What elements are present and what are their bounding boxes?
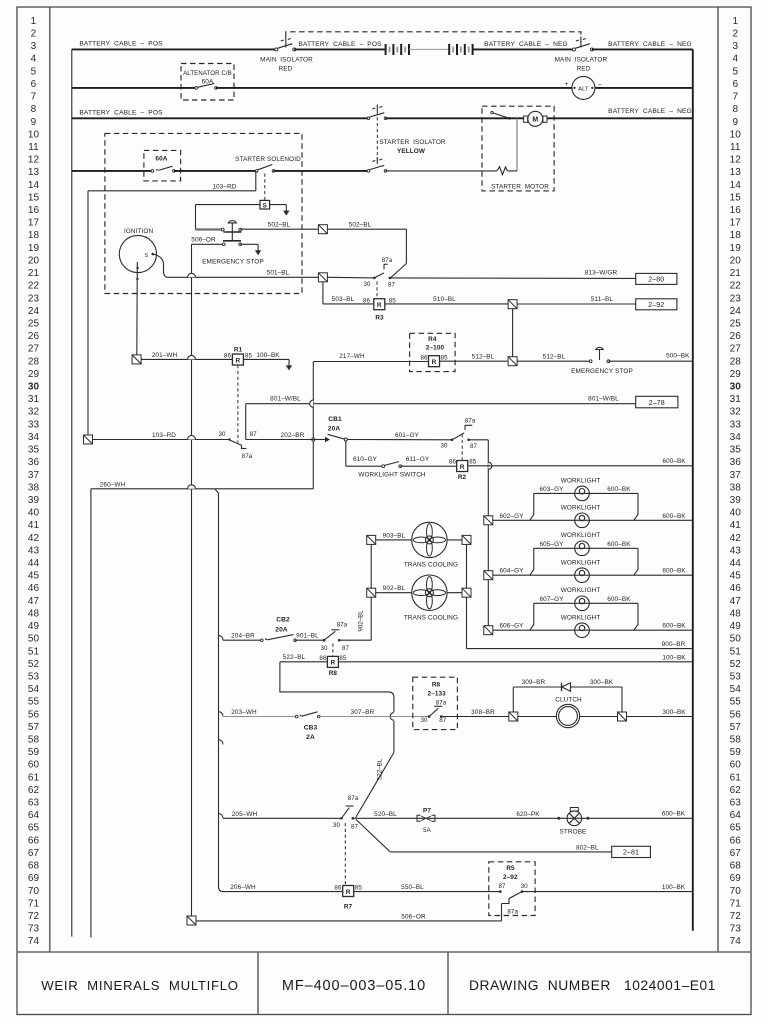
svg-text:205–WH: 205–WH xyxy=(232,811,258,818)
svg-text:901–BL: 901–BL xyxy=(296,633,319,640)
svg-text:217–WH: 217–WH xyxy=(339,353,365,360)
svg-text:204–BR: 204–BR xyxy=(231,633,255,640)
svg-text:606–GY: 606–GY xyxy=(499,623,524,630)
svg-text:87a: 87a xyxy=(507,908,518,915)
svg-text:62: 62 xyxy=(730,785,742,796)
svg-text:68: 68 xyxy=(28,861,40,872)
svg-text:103–RD: 103–RD xyxy=(152,432,176,439)
svg-text:2–78: 2–78 xyxy=(649,400,665,407)
svg-text:73: 73 xyxy=(28,924,40,935)
svg-text:R: R xyxy=(236,357,241,364)
svg-text:WEIR MINERALS MULTIFLO: WEIR MINERALS MULTIFLO xyxy=(41,978,239,993)
svg-text:300–BK: 300–BK xyxy=(662,709,686,716)
svg-text:600–BK: 600–BK xyxy=(662,458,686,465)
svg-text:30: 30 xyxy=(440,443,448,450)
svg-text:65: 65 xyxy=(730,823,742,834)
svg-text:87a: 87a xyxy=(348,795,359,802)
svg-text:43: 43 xyxy=(730,545,742,556)
svg-text:600–BK: 600–BK xyxy=(662,568,686,575)
svg-text:5A: 5A xyxy=(423,827,432,834)
svg-text:33: 33 xyxy=(730,419,742,430)
svg-text:27: 27 xyxy=(28,344,40,355)
svg-text:87: 87 xyxy=(498,883,506,890)
svg-text:32: 32 xyxy=(730,407,742,418)
svg-text:47: 47 xyxy=(730,596,742,607)
svg-text:600–BK: 600–BK xyxy=(607,541,631,548)
svg-text:30: 30 xyxy=(218,431,226,438)
svg-text:74: 74 xyxy=(730,936,742,947)
svg-text:31: 31 xyxy=(28,394,40,405)
svg-text:87a: 87a xyxy=(465,418,476,425)
svg-text:4: 4 xyxy=(732,54,738,65)
svg-text:1: 1 xyxy=(31,16,37,27)
svg-text:7: 7 xyxy=(732,92,738,103)
svg-text:31: 31 xyxy=(730,394,742,405)
svg-text:3: 3 xyxy=(31,41,37,52)
svg-text:206–WH: 206–WH xyxy=(230,884,256,891)
svg-text:41: 41 xyxy=(28,520,40,531)
svg-text:24: 24 xyxy=(28,306,40,317)
svg-text:ALTENATOR C/B: ALTENATOR C/B xyxy=(183,70,232,77)
svg-text:EMERGENCY STOP: EMERGENCY STOP xyxy=(202,258,264,265)
svg-text:36: 36 xyxy=(28,457,40,468)
svg-text:YELLOW: YELLOW xyxy=(397,148,426,155)
svg-text:37: 37 xyxy=(730,470,742,481)
svg-text:10: 10 xyxy=(28,129,40,140)
svg-text:13: 13 xyxy=(730,167,742,178)
svg-text:53: 53 xyxy=(28,671,40,682)
svg-text:21: 21 xyxy=(730,268,742,279)
svg-text:5: 5 xyxy=(31,66,37,77)
svg-text:49: 49 xyxy=(730,621,742,632)
svg-text:71: 71 xyxy=(730,898,742,909)
svg-text:39: 39 xyxy=(28,495,40,506)
svg-text:85: 85 xyxy=(339,655,347,662)
svg-text:9: 9 xyxy=(31,117,37,128)
svg-text:TRANS COOLING: TRANS COOLING xyxy=(404,614,458,621)
svg-text:87: 87 xyxy=(388,281,396,288)
svg-text:38: 38 xyxy=(28,482,40,493)
svg-text:22: 22 xyxy=(28,281,40,292)
svg-text:58: 58 xyxy=(28,734,40,745)
svg-text:32: 32 xyxy=(28,407,40,418)
svg-text:69: 69 xyxy=(28,873,40,884)
svg-text:12: 12 xyxy=(730,155,742,166)
svg-text:522–BL: 522–BL xyxy=(377,758,384,780)
svg-text:61: 61 xyxy=(730,772,742,783)
svg-text:63: 63 xyxy=(730,798,742,809)
svg-text:605–GY: 605–GY xyxy=(539,541,564,548)
svg-text:58: 58 xyxy=(730,734,742,745)
svg-text:813–W/GR: 813–W/GR xyxy=(585,270,618,277)
svg-text:74: 74 xyxy=(28,936,40,947)
svg-text:307–BR: 307–BR xyxy=(351,709,375,716)
svg-text:R: R xyxy=(331,660,336,667)
svg-text:511–BL: 511–BL xyxy=(591,296,614,303)
svg-text:17: 17 xyxy=(28,218,40,229)
svg-text:87a: 87a xyxy=(436,700,447,707)
svg-text:R2: R2 xyxy=(458,474,467,481)
svg-text:CB2: CB2 xyxy=(276,617,290,624)
svg-text:85: 85 xyxy=(245,352,253,359)
svg-text:14: 14 xyxy=(28,180,40,191)
svg-text:42: 42 xyxy=(28,533,40,544)
svg-text:600–BK: 600–BK xyxy=(607,596,631,603)
svg-text:CLUTCH: CLUTCH xyxy=(555,697,582,704)
svg-text:30: 30 xyxy=(333,822,341,829)
svg-text:26: 26 xyxy=(28,331,40,342)
svg-text:9: 9 xyxy=(732,117,738,128)
svg-text:R: R xyxy=(377,302,382,309)
svg-text:56: 56 xyxy=(28,709,40,720)
svg-text:54: 54 xyxy=(28,684,40,695)
svg-text:20A: 20A xyxy=(275,627,288,634)
svg-text:87a: 87a xyxy=(337,622,348,629)
svg-text:100–BK: 100–BK xyxy=(256,352,280,359)
svg-text:S: S xyxy=(144,253,148,259)
svg-text:86: 86 xyxy=(334,885,342,892)
svg-text:67: 67 xyxy=(730,848,742,859)
svg-text:503–BL: 503–BL xyxy=(332,296,355,303)
svg-text:602–GY: 602–GY xyxy=(499,513,524,520)
svg-text:2–133: 2–133 xyxy=(428,691,447,698)
svg-text:2–81: 2–81 xyxy=(623,850,639,857)
svg-text:20: 20 xyxy=(730,255,742,266)
svg-text:34: 34 xyxy=(28,432,40,443)
svg-text:WORKLIGHT: WORKLIGHT xyxy=(561,614,601,621)
svg-text:87: 87 xyxy=(351,823,359,830)
svg-text:100–BK: 100–BK xyxy=(662,884,686,891)
svg-text:72: 72 xyxy=(730,911,742,922)
svg-text:18: 18 xyxy=(730,230,742,241)
svg-text:600–BK: 600–BK xyxy=(662,513,686,520)
svg-text:8: 8 xyxy=(732,104,738,115)
svg-text:CB3: CB3 xyxy=(304,725,318,732)
svg-text:501–BL: 501–BL xyxy=(267,270,290,277)
svg-text:24: 24 xyxy=(730,306,742,317)
svg-text:61: 61 xyxy=(28,772,40,783)
svg-text:7: 7 xyxy=(31,92,37,103)
svg-text:RED: RED xyxy=(279,66,293,73)
svg-text:2–92: 2–92 xyxy=(503,874,518,881)
svg-text:S: S xyxy=(263,202,267,209)
svg-text:DRAWING NUMBER 1024001–E01: DRAWING NUMBER 1024001–E01 xyxy=(469,978,716,993)
svg-text:56: 56 xyxy=(730,709,742,720)
svg-text:59: 59 xyxy=(28,747,40,758)
svg-text:60A: 60A xyxy=(155,156,167,163)
svg-text:R4: R4 xyxy=(428,336,437,343)
svg-text:34: 34 xyxy=(730,432,742,443)
svg-text:29: 29 xyxy=(28,369,40,380)
svg-text:60: 60 xyxy=(730,760,742,771)
svg-text:85: 85 xyxy=(355,885,363,892)
svg-text:55: 55 xyxy=(28,697,40,708)
svg-text:203–WH: 203–WH xyxy=(231,709,257,716)
svg-text:607–GY: 607–GY xyxy=(539,596,564,603)
svg-text:3: 3 xyxy=(732,41,738,52)
svg-text:51: 51 xyxy=(28,646,40,657)
svg-text:600–BK: 600–BK xyxy=(662,811,686,818)
svg-text:900–BR: 900–BR xyxy=(662,641,686,648)
svg-text:902–BL: 902–BL xyxy=(358,610,365,632)
svg-text:M: M xyxy=(532,117,538,124)
svg-text:STARTER MOTOR: STARTER MOTOR xyxy=(491,184,549,191)
svg-text:64: 64 xyxy=(28,810,40,821)
svg-text:4: 4 xyxy=(31,54,37,65)
svg-text:45: 45 xyxy=(730,571,742,582)
svg-text:37: 37 xyxy=(28,470,40,481)
svg-text:RED: RED xyxy=(577,66,591,73)
svg-text:62: 62 xyxy=(28,785,40,796)
svg-text:30: 30 xyxy=(28,382,40,393)
svg-text:26: 26 xyxy=(730,331,742,342)
svg-text:STROBE: STROBE xyxy=(560,829,587,836)
svg-text:49: 49 xyxy=(28,621,40,632)
svg-text:11: 11 xyxy=(28,142,39,153)
svg-text:67: 67 xyxy=(28,848,40,859)
svg-text:2–100: 2–100 xyxy=(426,345,445,352)
svg-text:21: 21 xyxy=(28,268,40,279)
svg-text:50: 50 xyxy=(730,634,742,645)
svg-text:40: 40 xyxy=(730,508,742,519)
svg-text:28: 28 xyxy=(730,356,742,367)
svg-text:611–GY: 611–GY xyxy=(406,456,430,463)
svg-text:60: 60 xyxy=(28,760,40,771)
svg-text:53: 53 xyxy=(730,671,742,682)
svg-text:25: 25 xyxy=(28,318,40,329)
svg-text:601–GY: 601–GY xyxy=(395,432,420,439)
svg-text:WORKLIGHT: WORKLIGHT xyxy=(561,477,601,484)
svg-text:6: 6 xyxy=(31,79,37,90)
svg-text:R5: R5 xyxy=(506,865,515,872)
svg-text:52: 52 xyxy=(28,659,40,670)
svg-text:506–OR: 506–OR xyxy=(401,913,426,920)
svg-text:38: 38 xyxy=(730,482,742,493)
svg-text:65: 65 xyxy=(28,823,40,834)
svg-text:512–BL: 512–BL xyxy=(472,354,495,361)
svg-text:64: 64 xyxy=(730,810,742,821)
svg-text:IGNITION: IGNITION xyxy=(124,228,153,235)
svg-text:87: 87 xyxy=(470,443,478,450)
svg-text:502–BL: 502–BL xyxy=(349,222,372,229)
svg-text:309–BR: 309–BR xyxy=(522,679,546,686)
svg-text:STARTER ISOLATOR: STARTER ISOLATOR xyxy=(379,139,445,146)
svg-text:16: 16 xyxy=(28,205,40,216)
svg-text:P7: P7 xyxy=(423,807,431,814)
svg-text:R8: R8 xyxy=(329,670,338,677)
svg-text:29: 29 xyxy=(730,369,742,380)
svg-text:44: 44 xyxy=(730,558,742,569)
svg-text:502–BL: 502–BL xyxy=(268,222,291,229)
svg-text:68: 68 xyxy=(730,861,742,872)
svg-text:86: 86 xyxy=(363,298,371,305)
svg-text:85: 85 xyxy=(441,354,449,361)
svg-text:BATTERY CABLE – POS: BATTERY CABLE – POS xyxy=(298,41,382,48)
svg-text:87a: 87a xyxy=(382,257,393,264)
svg-text:620–PK: 620–PK xyxy=(516,811,540,818)
svg-text:35: 35 xyxy=(730,445,742,456)
svg-text:23: 23 xyxy=(28,293,40,304)
svg-text:1: 1 xyxy=(732,16,738,27)
svg-text:30: 30 xyxy=(730,382,742,393)
svg-text:WORKLIGHT: WORKLIGHT xyxy=(561,505,601,512)
svg-text:11: 11 xyxy=(730,142,741,153)
svg-text:25: 25 xyxy=(730,318,742,329)
svg-text:46: 46 xyxy=(28,583,40,594)
svg-text:2–92: 2–92 xyxy=(648,302,664,309)
svg-text:19: 19 xyxy=(730,243,742,254)
svg-text:35: 35 xyxy=(28,445,40,456)
svg-text:87: 87 xyxy=(439,717,447,724)
svg-text:16: 16 xyxy=(730,205,742,216)
svg-text:10: 10 xyxy=(730,129,742,140)
svg-text:802–BL: 802–BL xyxy=(576,844,599,851)
svg-text:2: 2 xyxy=(732,29,738,40)
svg-text:28: 28 xyxy=(28,356,40,367)
svg-text:15: 15 xyxy=(28,192,40,203)
svg-text:550–BL: 550–BL xyxy=(401,884,424,891)
svg-text:WORKLIGHT: WORKLIGHT xyxy=(561,559,601,566)
svg-text:87: 87 xyxy=(250,431,258,438)
svg-text:30: 30 xyxy=(320,645,328,652)
svg-text:5: 5 xyxy=(732,66,738,77)
svg-text:506–OR: 506–OR xyxy=(191,237,216,244)
svg-text:71: 71 xyxy=(28,898,40,909)
svg-text:22: 22 xyxy=(730,281,742,292)
svg-text:WORKLIGHT: WORKLIGHT xyxy=(561,532,601,539)
svg-text:63: 63 xyxy=(28,798,40,809)
svg-text:87a: 87a xyxy=(242,453,253,460)
svg-text:522–BL: 522–BL xyxy=(283,654,306,661)
svg-text:20A: 20A xyxy=(328,426,341,433)
svg-text:69: 69 xyxy=(730,873,742,884)
svg-text:6: 6 xyxy=(732,79,738,90)
svg-text:R7: R7 xyxy=(344,904,353,911)
svg-text:MAIN ISOLATOR: MAIN ISOLATOR xyxy=(260,57,313,64)
svg-text:WORKLIGHT: WORKLIGHT xyxy=(561,587,601,594)
svg-text:52: 52 xyxy=(730,659,742,670)
svg-text:BATTERY CABLE – NEG: BATTERY CABLE – NEG xyxy=(484,41,568,48)
svg-text:801–W/BL: 801–W/BL xyxy=(270,396,301,403)
svg-text:STARTER SOLENOID: STARTER SOLENOID xyxy=(235,156,301,163)
svg-text:87: 87 xyxy=(342,645,350,652)
svg-text:500–BK: 500–BK xyxy=(666,352,690,359)
svg-text:86: 86 xyxy=(224,352,232,359)
svg-text:39: 39 xyxy=(730,495,742,506)
svg-text:100–BK: 100–BK xyxy=(662,655,686,662)
svg-text:50: 50 xyxy=(28,634,40,645)
svg-text:66: 66 xyxy=(730,835,742,846)
svg-text:610–GY: 610–GY xyxy=(353,456,378,463)
svg-text:70: 70 xyxy=(730,886,742,897)
svg-text:15: 15 xyxy=(730,192,742,203)
svg-text:59: 59 xyxy=(730,747,742,758)
svg-text:46: 46 xyxy=(730,583,742,594)
svg-text:51: 51 xyxy=(730,646,742,657)
svg-text:48: 48 xyxy=(28,608,40,619)
svg-text:48: 48 xyxy=(730,608,742,619)
svg-text:600–BK: 600–BK xyxy=(607,486,631,493)
svg-text:44: 44 xyxy=(28,558,40,569)
svg-text:19: 19 xyxy=(28,243,40,254)
svg-text:CB1: CB1 xyxy=(328,416,342,423)
svg-text:2: 2 xyxy=(31,29,37,40)
svg-text:73: 73 xyxy=(730,924,742,935)
svg-text:54: 54 xyxy=(730,684,742,695)
svg-text:BATTERY CABLE – NEG: BATTERY CABLE – NEG xyxy=(608,41,692,48)
svg-text:EMERGENCY STOP: EMERGENCY STOP xyxy=(571,368,633,375)
svg-text:85: 85 xyxy=(469,459,477,466)
svg-text:R: R xyxy=(460,464,465,471)
svg-text:12: 12 xyxy=(28,155,40,166)
svg-text:WORKLIGHT SWITCH: WORKLIGHT SWITCH xyxy=(358,472,426,479)
svg-text:86: 86 xyxy=(421,354,429,361)
svg-text:23: 23 xyxy=(730,293,742,304)
svg-text:R8: R8 xyxy=(432,682,441,689)
svg-text:603–GY: 603–GY xyxy=(539,486,564,493)
svg-text:R: R xyxy=(346,889,351,896)
svg-text:201–WH: 201–WH xyxy=(152,352,178,359)
svg-text:600–BK: 600–BK xyxy=(662,623,686,630)
svg-text:86: 86 xyxy=(319,655,327,662)
svg-text:308–BR: 308–BR xyxy=(471,709,495,716)
svg-text:42: 42 xyxy=(730,533,742,544)
svg-text:20: 20 xyxy=(28,255,40,266)
svg-text:55: 55 xyxy=(730,697,742,708)
svg-text:30: 30 xyxy=(521,883,529,890)
svg-text:57: 57 xyxy=(28,722,40,733)
svg-text:27: 27 xyxy=(730,344,742,355)
svg-text:R1: R1 xyxy=(234,347,243,354)
svg-text:103–RD: 103–RD xyxy=(212,184,236,191)
svg-text:70: 70 xyxy=(28,886,40,897)
svg-text:2A: 2A xyxy=(306,734,315,741)
svg-text:903–BL: 903–BL xyxy=(383,532,406,539)
svg-text:40: 40 xyxy=(28,508,40,519)
svg-text:300–BK: 300–BK xyxy=(590,679,614,686)
svg-text:14: 14 xyxy=(730,180,742,191)
svg-text:902–BL: 902–BL xyxy=(383,585,406,592)
svg-text:801–W/BL: 801–W/BL xyxy=(588,396,619,403)
svg-text:2–80: 2–80 xyxy=(648,277,664,284)
svg-text:BATTERY CABLE – POS: BATTERY CABLE – POS xyxy=(79,109,163,116)
svg-text:86: 86 xyxy=(449,459,457,466)
svg-text:30: 30 xyxy=(420,717,428,724)
svg-text:33: 33 xyxy=(28,419,40,430)
svg-text:R: R xyxy=(432,359,437,366)
svg-text:8: 8 xyxy=(31,104,37,115)
svg-text:45: 45 xyxy=(28,571,40,582)
svg-text:+: + xyxy=(565,81,569,88)
svg-text:BATTERY CABLE – POS: BATTERY CABLE – POS xyxy=(79,41,163,48)
svg-text:13: 13 xyxy=(28,167,40,178)
svg-text:R3: R3 xyxy=(375,315,384,322)
svg-text:604–GY: 604–GY xyxy=(499,568,524,575)
svg-text:TRANS COOLING: TRANS COOLING xyxy=(404,562,458,569)
svg-text:47: 47 xyxy=(28,596,40,607)
svg-text:41: 41 xyxy=(730,520,742,531)
svg-text:17: 17 xyxy=(730,218,742,229)
svg-text:72: 72 xyxy=(28,911,40,922)
svg-text:202–BR: 202–BR xyxy=(281,432,305,439)
svg-text:18: 18 xyxy=(28,230,40,241)
svg-text:57: 57 xyxy=(730,722,742,733)
svg-text:43: 43 xyxy=(28,545,40,556)
svg-text:66: 66 xyxy=(28,835,40,846)
svg-text:BATTERY CABLE – NEG: BATTERY CABLE – NEG xyxy=(608,108,692,115)
svg-text:510–BL: 510–BL xyxy=(433,296,456,303)
svg-text:MAIN ISOLATOR: MAIN ISOLATOR xyxy=(555,57,608,64)
